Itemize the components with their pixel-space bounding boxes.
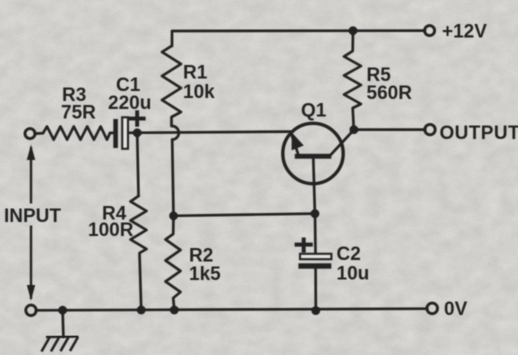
node C2 bottom xyxy=(311,306,320,315)
wire bottom rail 0V xyxy=(36,309,427,311)
C2 polarity + xyxy=(295,243,313,247)
capacitor C2 xyxy=(295,238,332,269)
wire C2 bottom lead xyxy=(314,269,317,311)
transistor Q1 xyxy=(283,123,354,183)
terminal OUTPUT xyxy=(425,124,435,134)
wire base line xyxy=(174,214,316,216)
node collector/output xyxy=(350,125,359,134)
node R5 top xyxy=(349,26,358,35)
terminal +12V xyxy=(425,26,435,36)
wire emitter line C1 to Q1 xyxy=(129,132,290,133)
wire ground stem xyxy=(61,310,65,336)
wire R1 to base node xyxy=(172,140,173,216)
svg-text:R1: R1 xyxy=(183,63,208,84)
svg-text:10u: 10u xyxy=(337,264,370,285)
node base right xyxy=(311,209,320,218)
resistor R1 xyxy=(162,46,181,126)
wire hop crossover (R1 chain over emitter wire) xyxy=(172,126,179,140)
svg-text:560R: 560R xyxy=(367,83,413,104)
wire C2 top lead xyxy=(314,214,317,254)
resistor R3 xyxy=(43,127,110,140)
ground xyxy=(42,337,79,352)
wire input top to R3 xyxy=(35,132,43,135)
wire Q1 base lead xyxy=(313,159,315,214)
terminal 0V xyxy=(427,303,438,314)
wire R3 to C1 xyxy=(110,132,114,135)
svg-text:C2: C2 xyxy=(337,244,361,265)
capacitor C1 xyxy=(113,110,145,149)
svg-text:INPUT: INPUT xyxy=(4,206,61,227)
svg-text:OUTPUT: OUTPUT xyxy=(440,123,518,144)
resistor R4 xyxy=(131,196,147,310)
svg-text:10k: 10k xyxy=(183,82,215,103)
node R4 bottom xyxy=(137,306,146,315)
svg-text:100R: 100R xyxy=(88,220,134,241)
node ground xyxy=(58,306,67,315)
INPUT arrows xyxy=(27,145,35,301)
node R2 bottom xyxy=(170,306,179,315)
terminals xyxy=(25,26,438,316)
node A after C1 xyxy=(133,128,142,137)
terminal input bottom xyxy=(26,305,36,315)
svg-text:220u: 220u xyxy=(108,93,151,114)
svg-text:0V: 0V xyxy=(444,299,468,320)
resistor R2 xyxy=(166,216,181,310)
wire R4 branch xyxy=(137,133,138,196)
node base left xyxy=(169,211,178,220)
svg-text:+12V: +12V xyxy=(442,22,487,43)
terminal input top xyxy=(25,129,35,139)
resistor R5 xyxy=(344,31,361,130)
wire output line xyxy=(354,128,425,131)
wire top rail +12V xyxy=(172,31,425,46)
svg-text:75R: 75R xyxy=(61,103,96,124)
C1 polarity + xyxy=(129,117,146,121)
svg-text:Q1: Q1 xyxy=(301,101,327,122)
svg-text:1k5: 1k5 xyxy=(189,264,221,285)
